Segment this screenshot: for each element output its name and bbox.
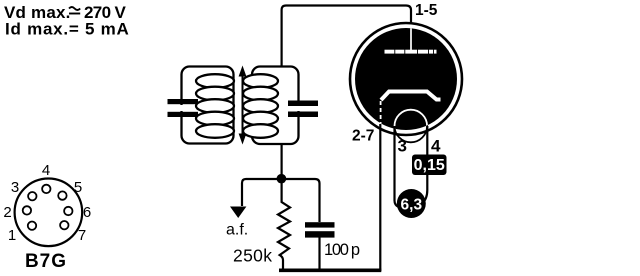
socket pin 2 bbox=[3, 204, 31, 221]
svg-text:5: 5 bbox=[74, 179, 82, 196]
svg-text:Id max.= 5 mA: Id max.= 5 mA bbox=[5, 20, 130, 39]
coupling arrow bbox=[239, 66, 247, 145]
svg-text:250k: 250k bbox=[233, 246, 272, 266]
svg-text:2: 2 bbox=[3, 204, 11, 221]
node detector junction bbox=[277, 174, 287, 184]
inductor L2 (secondary) bbox=[243, 74, 278, 138]
label Id max rating bbox=[5, 20, 130, 39]
label 0,15 A heater current bbox=[412, 155, 447, 176]
svg-text:6,3: 6,3 bbox=[401, 197, 423, 214]
socket pin 4 bbox=[42, 162, 51, 193]
svg-text:B7G: B7G bbox=[25, 251, 67, 272]
inductor L1 (primary) bbox=[196, 74, 234, 138]
heater bbox=[395, 110, 428, 143]
socket pin 7 bbox=[60, 221, 86, 244]
svg-text:a.f.: a.f. bbox=[226, 222, 248, 239]
heater lead pin 4 bbox=[422, 126, 427, 204]
svg-text:2-7: 2-7 bbox=[352, 128, 374, 145]
heater lead pin 3 bbox=[395, 126, 399, 207]
socket pin 3 bbox=[11, 179, 37, 200]
anode plate (pins 1-5) bbox=[385, 28, 437, 54]
wire secondary bottom to junction bbox=[281, 144, 283, 179]
svg-text:4: 4 bbox=[431, 137, 441, 156]
tube V1 envelope bbox=[350, 23, 462, 135]
svg-text:1-5: 1-5 bbox=[415, 2, 438, 19]
socket B7G outline bbox=[15, 179, 83, 247]
socket pin 5 bbox=[58, 179, 82, 200]
wire junction to capacitor bbox=[281, 179, 319, 222]
svg-text:6: 6 bbox=[83, 204, 91, 221]
capacitor C3 100p bbox=[305, 222, 335, 270]
label Vd max rating bbox=[4, 3, 126, 22]
a.f. output arrow bbox=[230, 207, 246, 219]
svg-text:3: 3 bbox=[398, 137, 407, 156]
secondary tank loop bbox=[252, 67, 299, 145]
wire secondary top to anode bbox=[282, 6, 411, 67]
svg-text:100 p: 100 p bbox=[324, 241, 360, 259]
svg-text:3: 3 bbox=[11, 179, 19, 196]
primary tank loop bbox=[182, 67, 234, 144]
svg-text:4: 4 bbox=[42, 162, 50, 179]
svg-text:0,15: 0,15 bbox=[414, 157, 445, 174]
capacitor C2 (secondary tuning) bbox=[288, 101, 318, 118]
resistor R1 250k bbox=[278, 179, 290, 270]
wire junction to a.f. output bbox=[242, 179, 281, 206]
svg-text:7: 7 bbox=[78, 227, 86, 244]
socket pin 6 bbox=[64, 204, 91, 221]
svg-text:1: 1 bbox=[8, 227, 16, 244]
wire cathode pins 2-7 to bottom rail bbox=[379, 124, 381, 271]
label 6,3 V heater voltage bbox=[397, 189, 426, 218]
wire bottom rail bbox=[279, 268, 381, 272]
socket pin 1 bbox=[8, 222, 36, 245]
cathode bbox=[381, 92, 441, 125]
capacitor C1 (primary tuning) bbox=[168, 99, 199, 117]
